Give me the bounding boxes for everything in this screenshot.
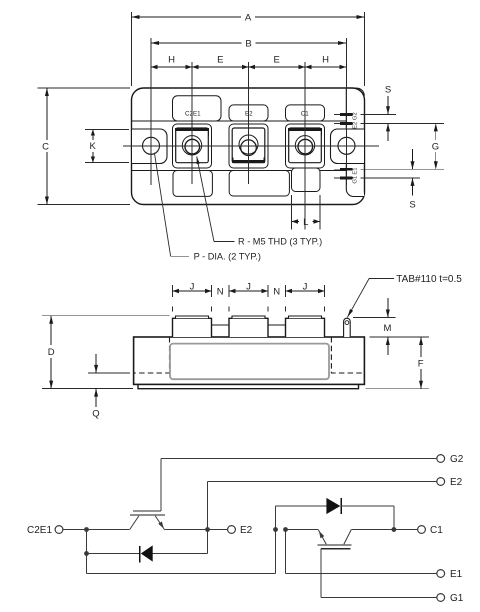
dimension F — [365, 337, 429, 389]
wire E1 branch down and right to E1 terminal — [286, 530, 437, 574]
dimension H E E H — [151, 55, 346, 73]
svg-text:M: M — [384, 323, 392, 334]
horizontal centerline — [123, 145, 379, 147]
dimension D — [42, 316, 170, 389]
hidden mounting hole left (dashed) — [134, 337, 170, 373]
dimension M — [353, 298, 429, 355]
svg-text:P - DIA. (2 TYP.): P - DIA. (2 TYP.) — [194, 251, 261, 261]
lower housing rect below C2E1 — [173, 171, 212, 197]
svg-text:E2: E2 — [245, 111, 253, 118]
svg-text:N: N — [273, 286, 280, 297]
control pin E2 — [334, 122, 444, 129]
svg-text:D: D — [48, 347, 55, 358]
dimension B — [151, 38, 346, 49]
svg-text:G2: G2 — [352, 112, 358, 120]
lower housing rect below E2 — [229, 171, 289, 197]
dimension Q — [88, 354, 130, 420]
IGBT Q1 (high side, gate G1) — [317, 530, 351, 598]
svg-text:E1: E1 — [352, 168, 358, 175]
dimension C — [38, 88, 131, 205]
svg-text:S: S — [385, 85, 391, 96]
terminal G1 — [437, 593, 464, 604]
side view valley edges — [212, 318, 286, 325]
svg-text:L: L — [303, 217, 308, 228]
IGBT Q2 (low side, gate G2) — [130, 459, 165, 530]
control pin E1 — [334, 168, 444, 175]
side view valley lines — [212, 318, 286, 325]
svg-text:S: S — [409, 200, 415, 211]
svg-text:G1: G1 — [450, 593, 464, 604]
svg-text:J: J — [190, 282, 195, 293]
svg-text:E: E — [274, 55, 280, 66]
wire collector lead IGBT Q2 — [87, 529, 130, 531]
svg-text:G2: G2 — [450, 454, 464, 465]
vertical centerline E2 — [248, 62, 250, 184]
leader R - M5 THD — [197, 157, 323, 247]
right mounting ear — [331, 129, 365, 164]
wire collector Q1 to C1 terminal — [351, 529, 417, 531]
dimension A — [132, 12, 365, 86]
svg-text:H: H — [168, 55, 175, 66]
svg-text:C2E1: C2E1 — [27, 525, 52, 536]
side view hump C1 — [286, 316, 325, 337]
svg-text:Q: Q — [92, 409, 99, 420]
screw terminal C1 — [286, 124, 325, 168]
control pin block (right edge) — [346, 88, 364, 197]
dimension L — [292, 195, 321, 230]
terminal label box E2 — [229, 105, 268, 121]
label plate (gray rect) — [170, 344, 329, 380]
terminal label box C2E1 — [173, 96, 222, 121]
junction dot B (E1 branch) — [283, 527, 288, 532]
left mounting hole P — [143, 137, 160, 154]
junction dot at collector node — [84, 527, 89, 532]
svg-text:E1: E1 — [450, 569, 463, 580]
leader P - DIA — [154, 153, 261, 262]
wire emitter node up to E2 rail — [207, 482, 209, 530]
lower housing rect below C1 (L tab) — [292, 168, 321, 192]
svg-text:C1: C1 — [430, 525, 443, 536]
vertical centerline right hole / B extension — [346, 38, 348, 185]
tab #110 terminal — [344, 318, 351, 337]
terminal E1 — [437, 569, 463, 580]
svg-text:C2E1: C2E1 — [185, 110, 201, 117]
terminal C2E1 — [27, 525, 63, 536]
svg-text:A: A — [245, 12, 252, 23]
wire E2 rail top — [208, 481, 437, 483]
vertical centerline left hole / B extension — [150, 38, 152, 185]
wire emitter Q2 to E2 terminal — [164, 529, 227, 531]
wire emitter node to IGBT Q1 — [286, 529, 319, 531]
platform edge lines (top view) — [132, 121, 347, 171]
terminal E2 (aux emitter) — [437, 477, 463, 488]
left mounting ear — [132, 129, 168, 164]
svg-text:N: N — [217, 286, 224, 297]
wire node down to bottom rail — [86, 530, 88, 574]
junction dot emitter node — [205, 527, 210, 532]
side view: baseplate lip — [138, 384, 359, 388]
terminal G2 — [437, 454, 464, 465]
svg-text:E2: E2 — [240, 525, 253, 536]
svg-text:J: J — [246, 282, 251, 293]
svg-text:F: F — [418, 358, 424, 369]
svg-text:C: C — [42, 141, 49, 152]
svg-text:B: B — [245, 38, 251, 49]
svg-text:K: K — [90, 141, 97, 152]
right mounting hole P — [338, 137, 355, 154]
terminal C1 — [418, 525, 444, 536]
side view hump E2 — [229, 316, 268, 337]
screw terminal C2E1 — [173, 124, 212, 168]
svg-text:R - M5 THD (3 TYP.): R - M5 THD (3 TYP.) — [238, 237, 322, 247]
module edge segments over ears — [132, 99, 365, 194]
wire gate G1 to terminal — [321, 597, 437, 599]
control pin G2 — [334, 112, 396, 120]
svg-text:E2: E2 — [450, 477, 463, 488]
vertical centerline C2E1 — [191, 62, 193, 184]
side view hump C2E1 — [173, 316, 212, 337]
junction dot A (diode branch) — [273, 527, 278, 532]
top view: module outline — [132, 88, 365, 205]
terminal E2 (middle) — [228, 525, 253, 536]
dimension K — [85, 130, 129, 163]
svg-text:J: J — [303, 282, 308, 293]
junction dot at diode row left — [84, 551, 89, 556]
screw terminal E2 — [229, 124, 268, 168]
diode D1 branch (freewheel across Q1, cathode right) — [276, 498, 394, 530]
svg-text:H: H — [322, 55, 329, 66]
leader TAB#110 — [347, 274, 462, 317]
diode D2 (freewheel across Q2, cathode left) — [87, 545, 208, 562]
side view: module body — [134, 337, 365, 384]
svg-text:E2: E2 — [352, 122, 358, 129]
svg-text:G1: G1 — [352, 176, 358, 184]
terminal label box C1 — [286, 105, 325, 121]
hidden mounting hole right (dashed) — [331, 337, 364, 373]
wire C2E1 to node — [63, 529, 87, 531]
bottom rail C2E1 to diode branch riser — [87, 530, 276, 574]
dimension S bottom (E1-G1 pin pitch) — [409, 149, 415, 211]
svg-text:G: G — [432, 141, 439, 152]
dimension G (E2-E1 pin span) — [432, 123, 439, 169]
svg-text:E: E — [217, 55, 223, 66]
dimension S top (G2-E2 pin pitch) — [385, 85, 391, 142]
control pin G1 — [334, 176, 420, 184]
svg-text:TAB#110 t=0.5: TAB#110 t=0.5 — [396, 274, 462, 285]
wire gate G2 rail — [161, 458, 437, 460]
vertical centerline C1 / L extension — [304, 62, 306, 230]
dimension J N J N J — [173, 282, 325, 312]
junction dot at C1/diode node — [392, 527, 397, 532]
wire emitter node down to diode row — [207, 530, 209, 554]
